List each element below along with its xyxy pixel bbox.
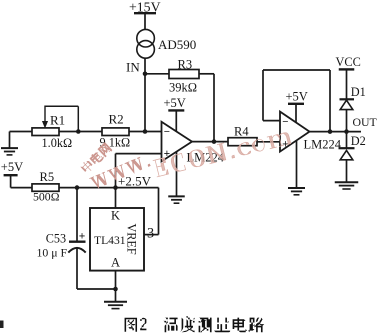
svg-text:39kΩ: 39kΩ	[169, 81, 197, 95]
svg-text:AD590: AD590	[158, 37, 196, 52]
svg-text:D2: D2	[351, 134, 366, 148]
svg-text:R1: R1	[50, 113, 65, 128]
svg-text:R2: R2	[109, 112, 124, 127]
svg-text:A: A	[111, 256, 120, 270]
svg-text:K: K	[111, 209, 120, 223]
svg-text:−: −	[282, 116, 288, 128]
svg-text:LM224: LM224	[304, 138, 342, 152]
svg-text:3: 3	[147, 226, 154, 242]
svg-text:+: +	[79, 231, 86, 243]
svg-text:+5V: +5V	[1, 160, 23, 174]
svg-text:OUT: OUT	[353, 115, 378, 129]
svg-text:VREF: VREF	[125, 224, 139, 255]
svg-text:−: −	[164, 126, 170, 138]
svg-text:VCC: VCC	[336, 55, 361, 69]
svg-text:IN: IN	[126, 60, 140, 75]
svg-text:R3: R3	[178, 58, 193, 72]
svg-text:D1: D1	[351, 85, 366, 99]
svg-text:+5V: +5V	[286, 90, 308, 104]
svg-text:10 μ F: 10 μ F	[37, 246, 68, 260]
svg-text:+5V: +5V	[164, 96, 186, 110]
svg-text:R4: R4	[234, 125, 249, 139]
svg-text:1.0kΩ: 1.0kΩ	[42, 136, 73, 150]
svg-text:C53: C53	[46, 231, 66, 245]
svg-text:R5: R5	[40, 170, 55, 184]
svg-text:500Ω: 500Ω	[33, 190, 60, 204]
svg-text:TL431: TL431	[94, 234, 126, 247]
